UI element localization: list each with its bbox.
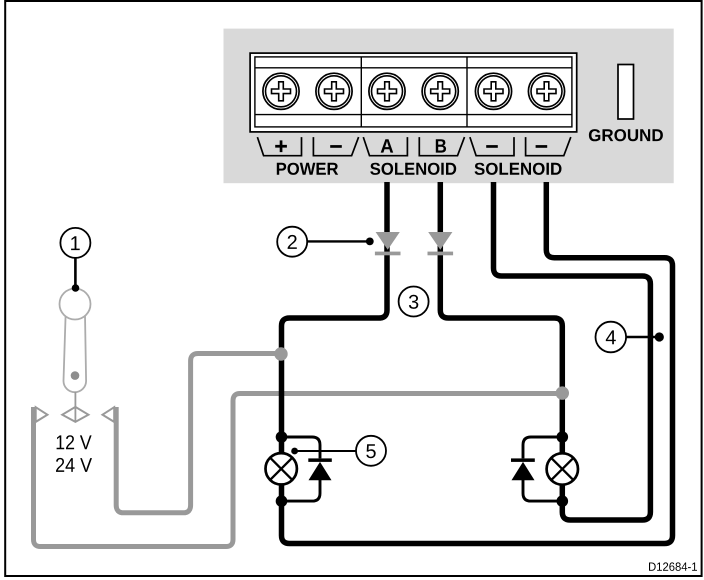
label + symbol bbox=[275, 140, 287, 152]
node junction B top bbox=[557, 431, 569, 443]
wire black A (terminal A to left solenoid to terminal -) bbox=[282, 182, 673, 544]
node junction A bottom bbox=[276, 495, 288, 507]
label bracket power - bbox=[313, 137, 358, 156]
label SOLENOID 2 bbox=[475, 163, 562, 175]
wire black B (terminal B to right solenoid to terminal -) bbox=[440, 182, 650, 520]
label bracket -1 bbox=[470, 137, 514, 156]
wire gray 1 (supply to solenoid B side) bbox=[34, 394, 563, 547]
lever diamond bbox=[62, 407, 88, 422]
label bracket B bbox=[419, 137, 464, 156]
label 24 V bbox=[56, 458, 92, 472]
label SOLENOID 1 bbox=[370, 163, 456, 175]
callout 2 leader line bbox=[307, 240, 367, 242]
wire diode branch right bbox=[523, 437, 562, 501]
label bracket A bbox=[363, 137, 407, 156]
callout 2 leader dot bbox=[366, 238, 374, 246]
callout 4 bbox=[596, 322, 627, 353]
terminal block inner lines bbox=[255, 57, 572, 127]
label GROUND bbox=[589, 129, 663, 141]
screw terminal power - bbox=[316, 73, 352, 109]
wire diode branch left bbox=[282, 437, 321, 501]
node gray junction B bbox=[556, 386, 569, 399]
diode D4 right solenoid bbox=[511, 458, 535, 480]
screw terminal + bbox=[263, 73, 299, 109]
node junction A top bbox=[276, 431, 288, 443]
node junction B bottom bbox=[557, 495, 569, 507]
lever body bbox=[64, 309, 87, 392]
label B bbox=[436, 139, 446, 152]
diode D1 on wire A bbox=[375, 232, 401, 255]
diode D3 left solenoid bbox=[308, 458, 332, 480]
screw terminal A bbox=[369, 73, 405, 109]
callout 1 leader line bbox=[74, 258, 77, 288]
screw terminal solenoid -1 bbox=[475, 73, 511, 109]
wire gray 2 (supply to solenoid A side) bbox=[116, 354, 281, 513]
ground tab bbox=[618, 65, 634, 120]
callout 1 leader dot bbox=[72, 284, 80, 292]
lever shaft bbox=[74, 392, 76, 422]
label bracket + bbox=[257, 137, 301, 156]
label bracket -2 bbox=[526, 137, 571, 156]
callout 1 bbox=[60, 228, 90, 258]
controller panel background bbox=[224, 29, 674, 184]
lever pivot ball bbox=[60, 289, 91, 320]
screw terminal solenoid -2 bbox=[528, 73, 564, 109]
diode D2 on wire B bbox=[428, 232, 454, 255]
callout 4 leader dot bbox=[655, 332, 664, 341]
screw terminal B bbox=[422, 73, 458, 109]
callout 4 leader line bbox=[626, 336, 655, 338]
terminal block inner bbox=[255, 57, 572, 127]
label 12 V bbox=[57, 435, 92, 449]
arrow left bbox=[36, 407, 48, 422]
lamp left solenoid bbox=[266, 453, 297, 484]
lamp right solenoid bbox=[547, 453, 578, 484]
node gray junction A bbox=[274, 347, 287, 360]
terminal block outer bbox=[250, 53, 577, 132]
label POWER bbox=[277, 163, 338, 175]
label - symbol solenoid 2 bbox=[536, 145, 548, 148]
arrow right bbox=[103, 407, 115, 422]
callout 5 bbox=[356, 436, 386, 466]
lever dot bbox=[71, 371, 80, 380]
callout 5 leader line bbox=[295, 450, 357, 452]
label A bbox=[381, 139, 394, 152]
label - symbol solenoid 1 bbox=[486, 145, 498, 148]
callout 2 bbox=[277, 227, 307, 257]
label - symbol power bbox=[330, 145, 342, 148]
label D12684-1 bbox=[649, 562, 697, 571]
callout 3 bbox=[399, 287, 429, 317]
callout 5 leader dot bbox=[291, 448, 298, 455]
